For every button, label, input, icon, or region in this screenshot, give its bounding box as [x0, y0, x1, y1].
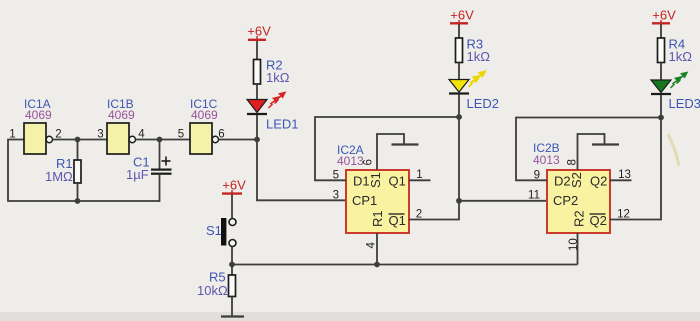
wire: R3 to LED2 — [458, 63, 460, 80]
wire: S2 pin to ground — [578, 134, 605, 170]
wire: +6V to R3 — [458, 24, 460, 38]
wire: LED3 to node — [660, 95, 662, 118]
wire: +6V to switch — [231, 194, 233, 218]
resistor R3 — [456, 38, 463, 63]
node: R1 bottom junction — [75, 198, 81, 204]
svg-text:Q2: Q2 — [590, 213, 607, 228]
wire: switch to rail node — [231, 247, 233, 265]
wire: D2 feedback loop to Q2-bar node — [516, 118, 661, 181]
node: Q2-bar / D2 / LED3 junction — [658, 115, 664, 121]
svg-text:Q1: Q1 — [389, 174, 406, 189]
yellow smudge artifact — [668, 134, 679, 166]
resistor R4 — [658, 38, 665, 63]
svg-text:Q2: Q2 — [590, 174, 607, 189]
svg-text:4069: 4069 — [25, 108, 52, 122]
svg-text:R2: R2 — [572, 210, 587, 227]
svg-text:1kΩ: 1kΩ — [467, 49, 491, 64]
ground (S2 of IC2B) — [592, 143, 619, 145]
wire: R4 to LED3 — [660, 63, 662, 81]
wire: node to R1 — [77, 140, 79, 161]
wire: C1 bottom to rail — [159, 175, 161, 202]
node: R1 top junction — [75, 137, 81, 143]
resistor R1 — [74, 160, 81, 183]
node: LED1 / clock junction — [254, 137, 260, 143]
supply +6V (LED3 branch) — [652, 8, 676, 24]
LED2 light arrows — [469, 72, 486, 88]
svg-text:CP2: CP2 — [553, 193, 578, 208]
resistor R5 — [229, 275, 236, 297]
svg-text:1µF: 1µF — [126, 167, 149, 182]
ground (S1 of IC2A) — [392, 143, 419, 145]
svg-text:LED1: LED1 — [266, 117, 299, 132]
svg-text:6: 6 — [363, 159, 375, 165]
resistor R2 — [254, 60, 261, 85]
wire: node down and right to CP1 — [257, 140, 346, 201]
wire: D1 feedback loop to Q1-bar node — [315, 117, 459, 180]
svg-text:1: 1 — [9, 129, 15, 141]
wire: node to R5 — [231, 265, 233, 276]
node: reset rail junction — [374, 262, 380, 268]
wire: node to CP2 — [459, 200, 547, 202]
wire: IC1B output to IC1C input — [136, 139, 191, 141]
svg-text:+6V: +6V — [652, 8, 676, 23]
flip-flop IC2B — [547, 170, 610, 233]
svg-text:S2: S2 — [569, 172, 584, 188]
node: CP2 branch junction — [456, 198, 462, 204]
svg-text:R1: R1 — [370, 210, 385, 227]
svg-text:5: 5 — [178, 129, 184, 141]
wire: IC1A output to IC1B input — [53, 139, 108, 141]
wire: feedback loop from IC1A input down and along bottom to C1 — [8, 140, 160, 202]
pin label Q2-bar — [590, 213, 607, 228]
svg-text:4: 4 — [366, 242, 378, 249]
wire: reset rail to both flip-flops — [232, 264, 578, 266]
svg-text:3: 3 — [333, 190, 339, 202]
wire: R1 pin down to reset rail — [376, 233, 378, 265]
wire: +6V to R2 — [256, 41, 258, 60]
wire: Q2-bar right and up to LED3 node — [610, 118, 661, 220]
svg-text:S1: S1 — [206, 223, 222, 238]
svg-text:CP1: CP1 — [352, 193, 377, 208]
wire: R1 to bottom rail — [77, 183, 79, 201]
svg-text:+6V: +6V — [247, 24, 271, 39]
svg-text:1kΩ: 1kΩ — [266, 70, 290, 85]
pin label Q1-bar — [389, 213, 406, 228]
LED LED2 — [449, 80, 469, 94]
node: C1 top junction — [157, 137, 163, 143]
svg-text:1MΩ: 1MΩ — [45, 169, 73, 184]
svg-text:10kΩ: 10kΩ — [197, 283, 228, 298]
node: Q1-bar / D1 / LED2 junction — [456, 114, 462, 120]
wire: IC1C output to LED1 node — [219, 139, 258, 141]
pushbutton S1 — [221, 218, 236, 247]
plus sign of C1 — [162, 157, 171, 166]
svg-text:4069: 4069 — [108, 108, 135, 122]
LED LED3 — [651, 80, 671, 94]
wire: LED2 to node — [458, 95, 460, 118]
wire: Q1 stub — [409, 179, 431, 181]
svg-text:S1: S1 — [368, 172, 383, 188]
wire: node down to C1 — [159, 140, 161, 169]
svg-text:4013: 4013 — [337, 154, 364, 168]
inverter IC1B — [107, 123, 136, 154]
wire: LED1 to node — [256, 115, 258, 140]
svg-text:+6V: +6V — [222, 178, 246, 193]
node: switch / R5 / reset rail junction — [229, 262, 235, 268]
LED1 light arrows — [269, 93, 286, 109]
svg-text:11: 11 — [528, 190, 540, 202]
svg-text:13: 13 — [618, 169, 631, 181]
svg-text:Q1: Q1 — [389, 213, 406, 228]
ground (R5) — [221, 315, 244, 317]
flip-flop IC2A — [346, 170, 409, 233]
wire: Q1-bar right and up to LED2 node — [409, 117, 459, 220]
wire: S1 pin to ground — [377, 134, 404, 170]
svg-text:LED2: LED2 — [467, 96, 500, 111]
svg-text:+6V: +6V — [450, 8, 474, 23]
wire: R5 to ground — [231, 297, 233, 317]
supply +6V (switch branch) — [222, 178, 246, 194]
LED3 light arrows — [671, 73, 688, 89]
inverter IC1A — [24, 123, 53, 154]
bottom scan band — [0, 312, 700, 321]
wire: R2 to LED1 — [256, 84, 258, 100]
wire: Q2 stub — [610, 179, 632, 181]
svg-text:3: 3 — [97, 129, 103, 141]
LED LED1 — [247, 100, 267, 115]
svg-text:1kΩ: 1kΩ — [669, 49, 693, 64]
svg-text:4069: 4069 — [191, 108, 218, 122]
supply +6V (LED1 branch) — [247, 24, 271, 40]
capacitor C1 — [151, 169, 172, 175]
svg-text:LED3: LED3 — [669, 96, 700, 111]
inverter IC1C — [190, 123, 219, 154]
svg-text:4013: 4013 — [533, 153, 560, 167]
svg-text:1: 1 — [416, 169, 422, 181]
supply +6V (LED2 branch) — [450, 8, 474, 24]
wire: +6V to R4 — [660, 24, 662, 38]
wire: R2 pin down to reset rail — [577, 233, 579, 265]
